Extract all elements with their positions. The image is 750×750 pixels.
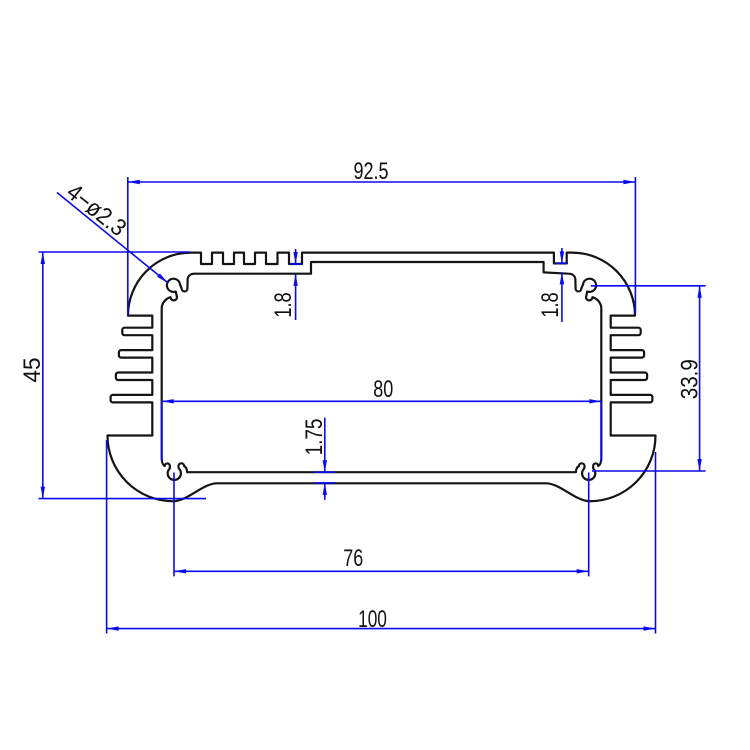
dim 1.75 bottom tail — [324, 483, 326, 500]
arrowhead 33.9 bottom — [697, 459, 701, 471]
extension line 100 left — [106, 440, 108, 634]
extension line 92.5 right — [634, 177, 636, 314]
svg-text:1.8: 1.8 — [270, 292, 297, 317]
dim 1.8 left bottom tail — [295, 274, 297, 320]
dim line 80 — [162, 400, 602, 402]
dim 1.8 right bottom tail — [561, 272, 563, 322]
extension line 76 left — [173, 473, 175, 577]
extension line 92.5 left — [127, 177, 129, 316]
extension line 45 bottom — [39, 498, 207, 500]
dim line 33.9 — [699, 286, 701, 471]
arrowhead 45 top — [41, 252, 45, 264]
arrowhead 1.8 right upper — [560, 251, 564, 263]
extension line 100 right — [655, 452, 657, 634]
extension line 80 left — [161, 401, 163, 461]
tick 1.75 upper — [314, 471, 335, 473]
extension line 33.9 bottom — [592, 470, 706, 472]
dim line 76 — [174, 570, 589, 572]
extension line 80 right — [600, 401, 602, 461]
arrowhead 80 right — [589, 399, 601, 403]
svg-text:80: 80 — [373, 377, 393, 403]
tick 1.75 lower — [314, 482, 335, 484]
tick 1.8 right — [556, 262, 568, 264]
svg-text:45: 45 — [18, 357, 45, 382]
extension line 76 right — [588, 473, 590, 577]
svg-text:76: 76 — [343, 546, 363, 572]
arrowhead leader 4-dia2.3 — [157, 274, 168, 283]
arrowhead 1.8 left upper — [293, 252, 297, 264]
svg-text:100: 100 — [358, 606, 387, 632]
dim 1.75 top tail — [324, 418, 326, 473]
svg-text:1.75: 1.75 — [300, 419, 328, 456]
arrowhead 33.9 top — [697, 286, 701, 298]
extension line 45 top — [39, 251, 191, 253]
svg-text:1.8: 1.8 — [537, 292, 564, 317]
dim line 100 — [107, 628, 656, 630]
dim 1.8 right top tail — [561, 248, 563, 263]
arrowhead 92.5 left — [128, 180, 140, 184]
arrowhead 45 bottom — [41, 487, 45, 499]
aluminium profile outer outline with heatsink fins and teeth — [108, 253, 656, 502]
svg-text:92.5: 92.5 — [353, 159, 388, 185]
extension line 33.9 top — [591, 285, 706, 287]
leader line 4-dia2.3 — [57, 193, 168, 283]
dim line 45 — [42, 252, 44, 499]
tick 1.8 left — [290, 263, 302, 265]
arrowhead 1.8 left lower — [293, 274, 297, 286]
arrowhead 92.5 right — [623, 180, 635, 184]
arrowhead 80 left — [162, 399, 174, 403]
dim 1.8 left top tail — [295, 249, 297, 264]
arrowhead 1.75 upper — [323, 460, 327, 472]
arrowhead 100 right — [644, 626, 656, 630]
arrowhead 100 left — [107, 626, 119, 630]
arrowhead 76 left — [174, 569, 186, 573]
svg-text:33.9: 33.9 — [676, 359, 703, 399]
arrowhead 1.8 right lower — [560, 272, 564, 284]
profile inner outline with 4 corner screw bosses — [162, 262, 602, 480]
arrowhead 1.75 lower — [323, 483, 327, 495]
arrowhead 76 right — [577, 569, 589, 573]
dim line 92.5 — [128, 181, 636, 183]
